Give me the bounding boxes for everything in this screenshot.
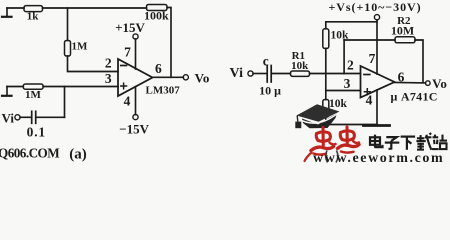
watermark char zi <box>385 137 400 149</box>
wire 100k to output (feedback) <box>167 8 171 78</box>
svg-text:4: 4 <box>366 93 373 108</box>
resistor 10k upper bias <box>323 29 329 49</box>
svg-text:+15V: +15V <box>115 20 145 35</box>
watermark parens around w <box>326 151 338 163</box>
svg-text:2: 2 <box>347 57 354 72</box>
wire +Vs rail <box>326 20 377 29</box>
svg-text:1M: 1M <box>25 89 42 101</box>
svg-text:−15V: −15V <box>119 121 149 136</box>
op-amp U2 uA741C triangle <box>361 66 395 98</box>
svg-text:3: 3 <box>344 76 351 91</box>
terminal +15V <box>133 34 138 39</box>
wire pin 4 right <box>376 90 378 124</box>
watermark red tail <box>305 153 312 162</box>
resistor R2 10M <box>395 37 415 43</box>
node A junction top rail <box>67 8 69 41</box>
wire output Vo right <box>395 81 426 84</box>
capacitor 0.1 <box>32 111 36 123</box>
wire divider to lower 10k <box>325 91 327 100</box>
watermark char zhan <box>432 135 447 150</box>
feedback tap wire <box>343 40 345 74</box>
svg-text:2: 2 <box>105 55 112 70</box>
svg-text:Vi: Vi <box>2 110 15 125</box>
plus sign right <box>364 89 370 95</box>
wire ground G1 to resistor 1k <box>7 7 24 9</box>
terminal -15V <box>133 115 138 120</box>
wire R1 to pin 2 <box>310 73 361 75</box>
svg-text:1M: 1M <box>72 41 89 53</box>
minus sign right <box>364 74 370 76</box>
wire Vi to capacitor 0.1 <box>20 116 31 118</box>
resistor 1k <box>24 6 43 12</box>
watermark character chong 1 <box>311 128 336 155</box>
watermark char zai <box>416 133 431 150</box>
op-amp U1 LM307 triangle <box>118 59 153 96</box>
terminal +Vs <box>374 15 379 20</box>
svg-text:10k: 10k <box>329 98 348 110</box>
watermark graduation cap <box>295 104 339 128</box>
svg-text:Vo: Vo <box>195 71 210 86</box>
watermark char dian <box>370 135 383 148</box>
wire pin 7 right <box>376 22 378 74</box>
wire capacitor to R1 <box>272 73 291 75</box>
ground G1 top-left <box>2 8 12 17</box>
svg-text:7: 7 <box>124 45 131 60</box>
wire 1M to pin2 wire <box>68 56 119 72</box>
wire 1k to 100k (top rail) <box>43 7 147 9</box>
wire ground G2 to 1M horizontal <box>7 86 23 88</box>
wire pin 4 supply <box>135 87 137 115</box>
resistor 1M vertical <box>65 41 71 57</box>
capacitor c 10u <box>267 66 271 83</box>
wire lower 10k to ground <box>326 117 377 125</box>
svg-text:6: 6 <box>155 61 162 76</box>
wire 1M to pin 3 <box>43 86 118 88</box>
ground G2 left <box>2 87 12 96</box>
watermark character chong 2 <box>338 127 360 153</box>
svg-text:μ A741C: μ A741C <box>391 89 438 103</box>
terminal Vi left <box>15 115 20 120</box>
svg-text:(a): (a) <box>69 147 87 163</box>
svg-text:10M: 10M <box>391 24 414 38</box>
wire feedback right segment to output <box>415 40 423 82</box>
svg-text:+Vs(+10~−30V): +Vs(+10~−30V) <box>329 0 422 14</box>
svg-text:c: c <box>263 53 269 68</box>
resistor 100k <box>147 5 168 11</box>
svg-text:Vi: Vi <box>230 66 244 81</box>
resistor 10k lower bias <box>323 100 329 118</box>
svg-text:3: 3 <box>105 71 112 86</box>
wire capacitor to node B <box>37 116 65 118</box>
watermark char xia <box>401 137 416 150</box>
resistor 1M horizontal <box>23 84 43 89</box>
svg-text:100k: 100k <box>144 9 169 23</box>
svg-text:www.eeworm.com: www.eeworm.com <box>313 151 444 165</box>
terminal Vo right <box>426 81 431 86</box>
terminal Vo left <box>183 75 188 80</box>
wire pin 7 supply <box>135 39 137 69</box>
wire pin 3 bias <box>326 90 361 92</box>
wire Vi to capacitor c <box>253 73 266 75</box>
wire bias divider vertical <box>325 48 327 90</box>
svg-text:10 μ: 10 μ <box>259 83 281 97</box>
svg-text:1k: 1k <box>27 11 40 23</box>
ground G3 right <box>364 124 390 127</box>
svg-text:10k: 10k <box>291 60 309 72</box>
svg-text:LM307: LM307 <box>146 84 181 96</box>
svg-text:4: 4 <box>124 94 131 109</box>
plus sign input <box>121 83 127 89</box>
minus sign input <box>121 65 127 67</box>
svg-text:0.1: 0.1 <box>27 125 46 140</box>
wire feedback left segment <box>344 39 395 41</box>
resistor R1 10k <box>291 71 310 76</box>
node B capacitor branch <box>64 87 66 118</box>
svg-text:Q606.COM: Q606.COM <box>0 145 60 160</box>
terminal Vi right <box>248 71 253 76</box>
wire output Vo left <box>153 76 184 78</box>
svg-text:7: 7 <box>369 51 376 66</box>
